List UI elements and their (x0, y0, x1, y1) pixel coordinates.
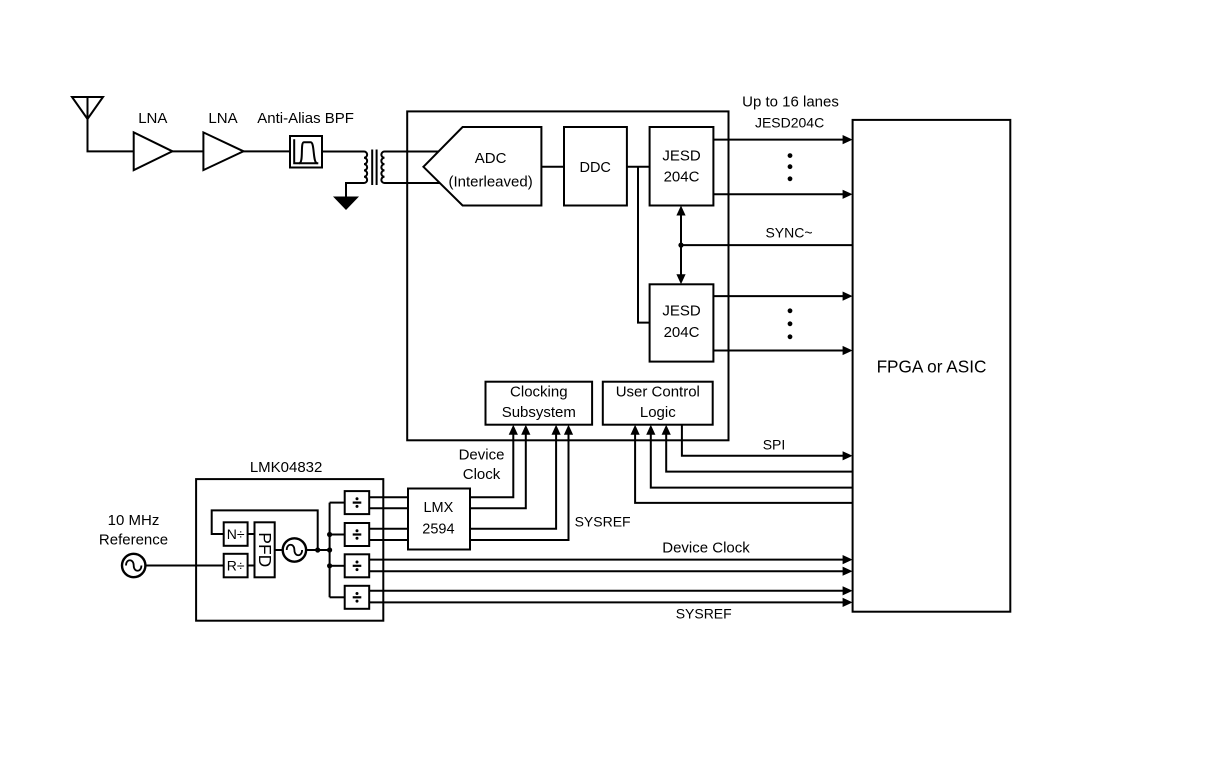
svg-text:JESD204C: JESD204C (755, 114, 824, 130)
svg-text:ADC: ADC (475, 150, 507, 167)
svg-text:R÷: R÷ (227, 558, 245, 574)
svg-text:N÷: N÷ (227, 526, 245, 542)
svg-text:Anti-Alias BPF: Anti-Alias BPF (257, 110, 354, 127)
svg-text:SYSREF: SYSREF (676, 606, 732, 622)
svg-text:Subsystem: Subsystem (502, 404, 576, 421)
svg-text:DDC: DDC (579, 160, 610, 176)
svg-text:SPI: SPI (763, 437, 786, 453)
svg-text:SYSREF: SYSREF (575, 514, 631, 530)
svg-text:Device Clock: Device Clock (662, 539, 750, 556)
svg-text:JESD: JESD (662, 148, 701, 165)
svg-text:Reference: Reference (99, 532, 168, 549)
svg-text:Logic: Logic (640, 404, 676, 421)
svg-text:LNA: LNA (208, 110, 237, 127)
svg-text:PFD: PFD (255, 532, 275, 567)
svg-text:SYNC~: SYNC~ (765, 225, 812, 241)
svg-text:Device: Device (459, 447, 505, 464)
svg-text:LMK04832: LMK04832 (250, 459, 323, 476)
svg-text:LMX: LMX (423, 500, 453, 516)
svg-text:Clock: Clock (463, 466, 501, 483)
svg-text:Clocking: Clocking (510, 384, 568, 401)
svg-text:FPGA or ASIC: FPGA or ASIC (877, 356, 987, 376)
svg-text:(Interleaved): (Interleaved) (448, 174, 532, 191)
svg-text:2594: 2594 (422, 522, 454, 538)
svg-text:Up to 16 lanes: Up to 16 lanes (742, 94, 839, 111)
svg-text:LNA: LNA (138, 110, 167, 127)
svg-text:User Control: User Control (616, 384, 700, 401)
svg-text:204C: 204C (664, 324, 700, 341)
svg-text:10 MHz: 10 MHz (108, 512, 160, 529)
svg-text:204C: 204C (664, 168, 700, 185)
svg-text:JESD: JESD (662, 303, 701, 320)
